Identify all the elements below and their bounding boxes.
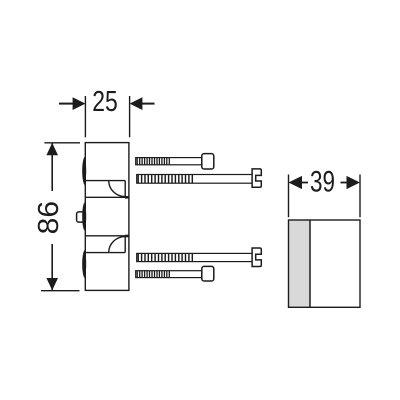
dim 25: right extension line (129, 96, 131, 137)
screw 2: thread bars (138, 175, 192, 184)
body: lower module swing arc (109, 237, 126, 253)
body: upper module right edge (124, 181, 126, 198)
body: line above lower module (85, 235, 129, 237)
escutcheon: gray strip (289, 220, 311, 307)
body: junction nub lower band (125, 235, 129, 238)
screw 3 (bottom long, slotted head): rod (137, 253, 252, 261)
dim 86: bottom arrow (46, 278, 58, 290)
dim 39: left arrow (289, 176, 309, 189)
screw 1 (top short, socket head): rod (136, 158, 202, 165)
screw 2 (top long, slotted head): rod (137, 175, 252, 184)
svg-text:25: 25 (92, 86, 118, 118)
dim 86: vertical dimension line upper segment (51, 144, 53, 192)
dim 39: right arrow (341, 176, 361, 189)
screw 3: slotted cheese head (252, 248, 261, 267)
dim 25: left arrow (59, 97, 85, 110)
body: bottom gasket lens (82, 250, 86, 278)
body: middle gasket lens (82, 202, 86, 231)
dim 86: bottom extension segment (41, 290, 80, 292)
body: lower module bottom line (85, 252, 125, 254)
dim 86: top extension segment (44, 142, 80, 144)
dim 39: left extension line (288, 175, 290, 218)
dim 25: left extension line (84, 96, 86, 137)
body: lower module right edge (124, 236, 126, 252)
screw 4 (bottom short, socket head): rod (136, 271, 202, 278)
body: top gasket lens (82, 157, 86, 185)
screw 1: socket head (202, 154, 214, 169)
body: line below upper module (85, 196, 129, 198)
screw 2: slotted cheese head (252, 169, 261, 187)
svg-text:39: 39 (310, 166, 335, 199)
body: upper module divider line (85, 180, 125, 182)
escutcheon outer rectangle (289, 220, 361, 307)
dim 86: vertical dimension line lower segment (51, 244, 53, 290)
body: junction nub upper band (125, 196, 129, 199)
svg-text:86: 86 (33, 201, 65, 235)
dim 39: right extension line (359, 175, 361, 218)
screw 1: thread bars (137, 158, 169, 165)
body: middle clip tab (77, 212, 85, 222)
dim 86: top arrow (46, 143, 58, 155)
body: upper module swing arc (109, 181, 126, 197)
dim 25: right arrow (130, 97, 155, 110)
screw 4: socket head (202, 266, 214, 281)
valve body outer rectangle (85, 143, 129, 291)
screw 4: thread bars (137, 271, 169, 278)
screw 3: thread bars (138, 253, 192, 261)
escutcheon divider line (309, 220, 311, 307)
